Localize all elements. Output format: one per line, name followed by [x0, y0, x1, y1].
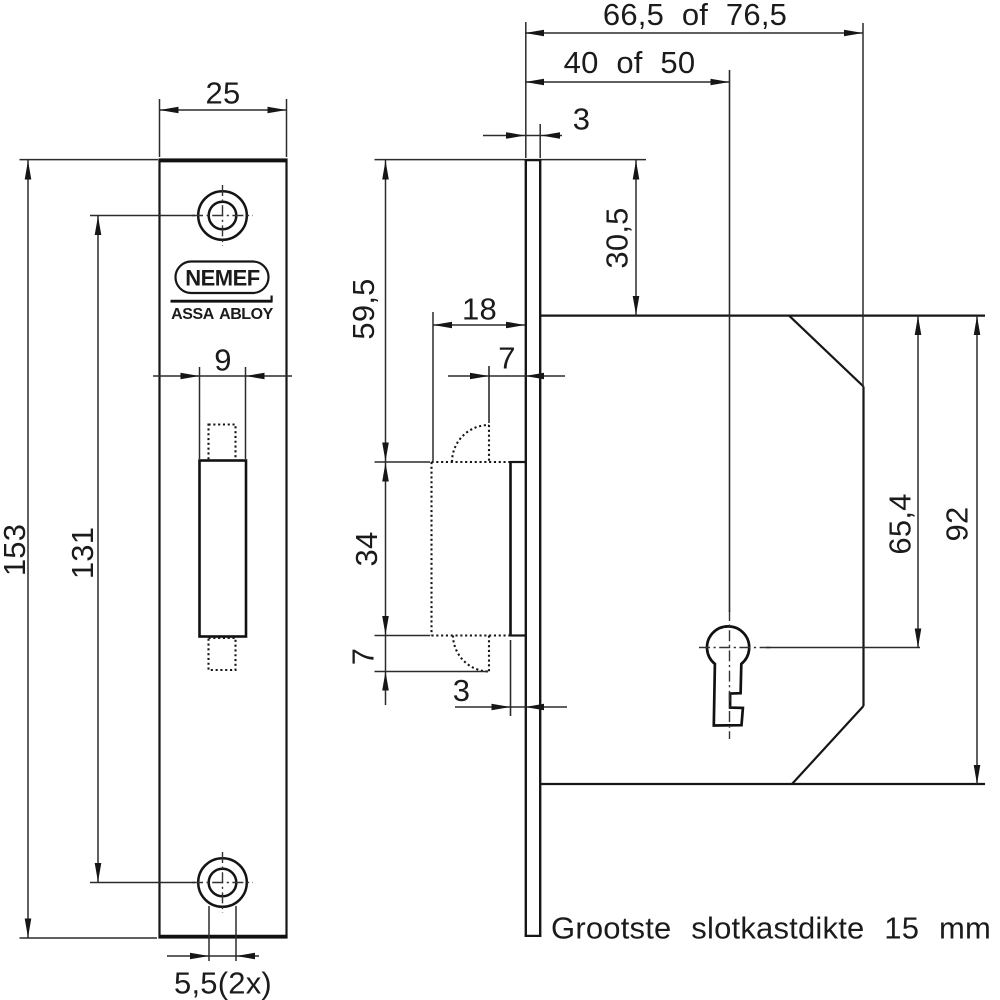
svg-text:ASSA ABLOY: ASSA ABLOY [171, 306, 273, 323]
svg-text:59,5: 59,5 [346, 278, 381, 339]
svg-text:NEMEF: NEMEF [185, 266, 260, 291]
dim 40 extension [729, 70, 731, 612]
dim 34 extension bottom [375, 635, 431, 637]
keyhole horizontal center line [699, 647, 770, 649]
svg-text:34: 34 [349, 532, 384, 567]
keyhole [707, 626, 749, 725]
dim 92 label [940, 507, 975, 542]
dim 153 extension lines [20, 159, 159, 161]
dim 131 extension lines [90, 215, 195, 217]
dim 59,5 arrows [382, 161, 389, 180]
bolt swing arc bottom (dashed) [453, 636, 490, 672]
dim 18 arrows [433, 322, 452, 329]
dim 66,5 extension left [525, 22, 527, 158]
dim 66,5 arrows [525, 30, 544, 37]
dim 59,5 label [346, 278, 381, 339]
svg-text:7: 7 [498, 340, 515, 375]
dim 9 extension lines [199, 367, 201, 459]
dim 3 plate line [483, 135, 562, 137]
dim 40 line [525, 81, 730, 83]
dim 5,5 extension lines [208, 906, 210, 961]
dim 65,4 label [883, 493, 918, 554]
dim 7 top line [448, 375, 565, 377]
dim 66,5 line [525, 32, 863, 34]
dim 131 line [97, 216, 99, 883]
lock case bottom edge [541, 783, 985, 785]
bolt extended outline top (dashed) [432, 461, 511, 463]
dim 7 top arrows [470, 373, 489, 380]
bolt bottom connector [511, 634, 526, 636]
svg-text:18: 18 [462, 291, 497, 326]
bottom screw hole center lines [222, 852, 224, 913]
faceplate side view right edge [539, 160, 541, 938]
dim 30,5 line [635, 160, 637, 316]
faceplate side view bottom cap [525, 935, 542, 937]
svg-text:3: 3 [453, 673, 470, 708]
faceplate front view outline [160, 160, 287, 938]
svg-text:40 of 50: 40 of 50 [564, 45, 696, 80]
dim 3 bottom line [455, 706, 567, 708]
dim 3 plate extension [539, 124, 541, 158]
dim 59,5-34-7 line [385, 160, 387, 705]
dim 66,5 extension right [862, 23, 864, 386]
bolt stub top (dashed) [209, 425, 236, 461]
dim 3 bottom arrows [492, 704, 511, 711]
bolt front view (solid) [200, 461, 247, 637]
bottom screw hole [198, 858, 247, 907]
dim 18 extension [432, 312, 434, 461]
dim 153 line [27, 160, 29, 938]
dim 25 extension lines [159, 99, 161, 157]
keyhole vertical center line [729, 610, 731, 739]
svg-text:30,5: 30,5 [600, 207, 635, 268]
dim 7 bottom arrow [382, 672, 389, 691]
svg-text:Grootste slotkastdikte 15 mm: Grootste slotkastdikte 15 mm [551, 911, 991, 946]
bolt swing arc top (dashed) [452, 425, 489, 462]
dim 9 line [153, 375, 292, 377]
dim 34 extension top [375, 461, 431, 463]
dim 5,5 line [167, 955, 259, 957]
faceplate side top cap [525, 159, 542, 161]
dim 131 label [65, 527, 100, 579]
dim 65,4 line [917, 316, 919, 648]
dim 3 plate arrows [506, 132, 525, 139]
lock case top edge [541, 315, 985, 317]
dim 7 bottom label [346, 648, 381, 665]
bolt top connector [511, 461, 526, 463]
dim 92 line [976, 316, 978, 784]
svg-text:7: 7 [346, 648, 381, 665]
bolt stub bottom (dashed) [209, 638, 236, 670]
dim 34 label [349, 532, 384, 567]
NEMEF logo oval [176, 262, 269, 294]
dim 131 arrows [95, 216, 102, 235]
dim 40 arrows [525, 79, 544, 86]
svg-text:25: 25 [206, 76, 241, 111]
dim 65,4 arrows [915, 316, 922, 335]
ASSA ABLOY underline [171, 300, 273, 303]
bolt extended outline left (dashed) [430, 462, 432, 636]
top screw hole center lines [222, 185, 224, 246]
dim 153 label [0, 524, 32, 576]
bolt edge top (dashed) [488, 425, 490, 462]
dim 9 arrows [181, 373, 200, 380]
dim 153 arrows [25, 161, 32, 180]
dim 92 arrows [974, 316, 981, 335]
top face extension line [375, 159, 647, 161]
dim 18 line [433, 324, 525, 326]
dim 25 line [160, 109, 287, 111]
svg-text:153: 153 [0, 524, 32, 576]
keyhole center reference line [766, 647, 920, 649]
svg-text:92: 92 [940, 507, 975, 542]
dim 7 bottom extension [375, 671, 489, 673]
dim 3 bottom extension [510, 640, 512, 716]
svg-text:9: 9 [214, 343, 231, 378]
svg-text:5,5(2x): 5,5(2x) [174, 966, 272, 1000]
dim 30,5 arrows [633, 161, 640, 180]
lock case top chamfer [789, 316, 864, 387]
top screw hole [198, 191, 247, 240]
dim 7 top extension [488, 366, 490, 423]
svg-text:65,4: 65,4 [883, 493, 918, 554]
svg-text:131: 131 [65, 527, 100, 579]
bolt face (solid) [509, 461, 512, 637]
dim 5,5 arrows [190, 953, 209, 960]
dim 34 arrows [382, 463, 389, 482]
lock case right edge [862, 387, 864, 707]
svg-text:66,5 of 76,5: 66,5 of 76,5 [603, 0, 787, 32]
dim 25 arrows [160, 107, 179, 114]
lock case bottom chamfer [792, 706, 864, 784]
bolt extended outline bottom (dashed) [432, 634, 511, 636]
dim 30,5 label [600, 207, 635, 268]
bolt edge bottom (dashed) [488, 636, 490, 672]
svg-text:3: 3 [573, 101, 590, 136]
faceplate side view left edge [525, 160, 527, 938]
